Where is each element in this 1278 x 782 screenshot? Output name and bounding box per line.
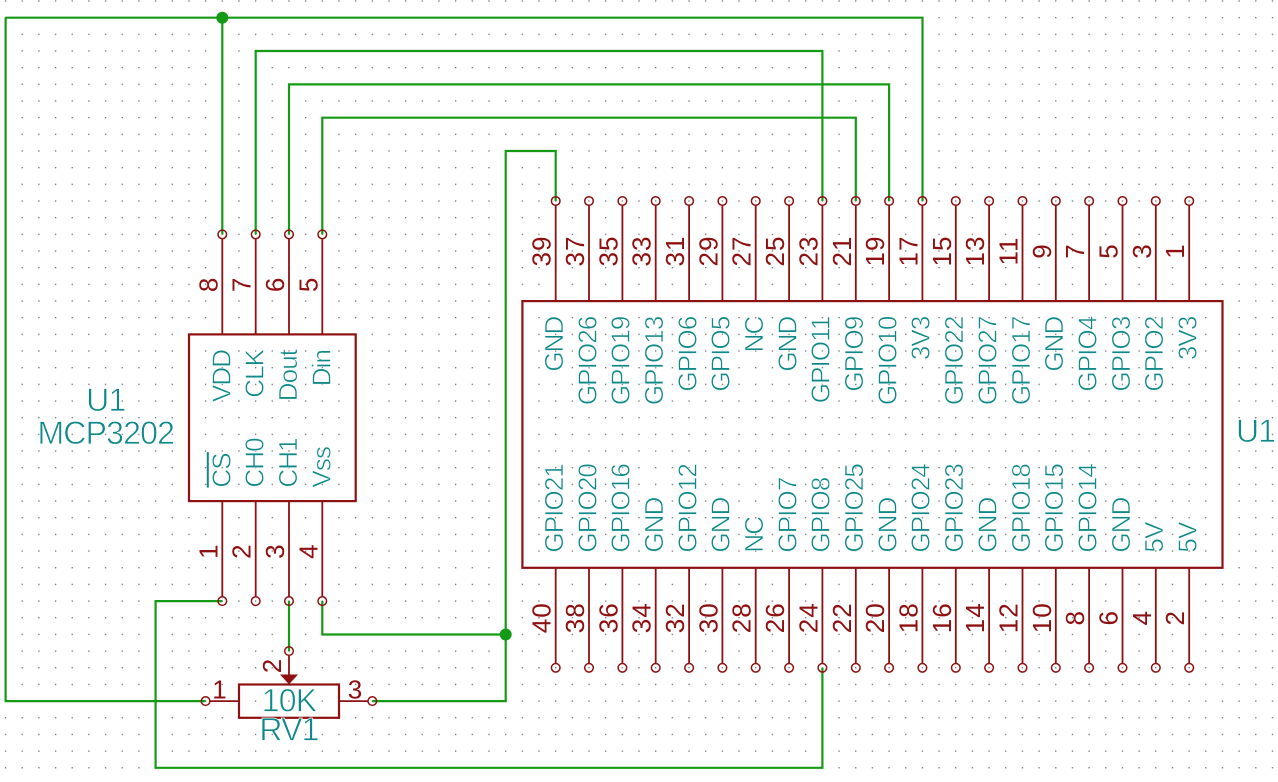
- U1 RasPi pin 6 (GND) bottom: [1094, 497, 1136, 672]
- svg-text:16: 16: [927, 602, 957, 633]
- svg-text:20: 20: [860, 602, 890, 633]
- svg-text:1: 1: [212, 675, 227, 705]
- svg-text:3: 3: [260, 543, 290, 558]
- svg-text:37: 37: [560, 236, 590, 267]
- RV1 pin 2 wiper with arrow: [257, 647, 298, 685]
- U1 RasPi pin 22 (GPIO25) bottom: [827, 464, 869, 672]
- svg-text:GND: GND: [772, 316, 802, 371]
- svg-text:9: 9: [1027, 243, 1057, 258]
- U1 RasPi pin 32 (GPIO12) bottom: [660, 464, 702, 672]
- svg-text:VDD: VDD: [206, 350, 236, 402]
- svg-text:GPIO8: GPIO8: [806, 477, 836, 552]
- svg-text:GPIO21: GPIO21: [539, 464, 569, 553]
- svg-text:GPIO7: GPIO7: [772, 477, 802, 552]
- U1 RasPi pin 11 (GPIO17) top: [994, 197, 1036, 405]
- svg-text:CLK: CLK: [240, 348, 270, 397]
- svg-text:GPIO5: GPIO5: [706, 316, 736, 391]
- svg-text:39: 39: [527, 236, 557, 267]
- U1 RasPi pin 8 (GPIO14) bottom: [1060, 464, 1102, 672]
- svg-text:GND: GND: [972, 497, 1002, 552]
- svg-text:30: 30: [693, 602, 723, 633]
- wire Vss(U1 pin4) to GND vertical: [322, 601, 505, 634]
- svg-text:13: 13: [960, 236, 990, 267]
- U1 RasPi pin 4 (5V) bottom: [1127, 521, 1169, 672]
- U1 RasPi pin 19 (GPIO10) top: [860, 197, 902, 405]
- U1 RasPi pin 29 (GPIO5) top: [693, 197, 735, 392]
- svg-text:14: 14: [960, 602, 990, 633]
- svg-text:GPIO13: GPIO13: [639, 316, 669, 405]
- svg-text:GPIO19: GPIO19: [606, 316, 636, 405]
- svg-text:5: 5: [293, 277, 323, 292]
- svg-text:3V3: 3V3: [906, 316, 936, 360]
- svg-text:17: 17: [893, 236, 923, 267]
- svg-text:4: 4: [293, 543, 323, 558]
- svg-text:GPIO6: GPIO6: [672, 316, 702, 391]
- svg-text:RV1: RV1: [259, 712, 318, 748]
- wire Din(U1 pin5) to RasPi pin21 GPIO9: [322, 118, 856, 235]
- svg-text:GND: GND: [639, 497, 669, 552]
- svg-text:GPIO22: GPIO22: [939, 316, 969, 405]
- U1 RasPi pin 40 (GPIO21) bottom: [527, 464, 569, 672]
- U1 RasPi pin 18 (GPIO24) bottom: [893, 464, 935, 672]
- svg-text:GPIO20: GPIO20: [572, 464, 602, 553]
- svg-text:8: 8: [193, 277, 223, 292]
- U1 MCP3202 pin 5 (Din) top: [293, 230, 336, 386]
- svg-text:GPIO3: GPIO3: [1106, 316, 1136, 391]
- U1 RasPi pin 30 (GND) bottom: [693, 497, 735, 672]
- svg-text:34: 34: [627, 602, 657, 633]
- svg-text:36: 36: [593, 602, 623, 633]
- svg-text:12: 12: [994, 602, 1024, 633]
- svg-text:Dout: Dout: [273, 348, 303, 401]
- U1 MCP3202 pin 8 (VDD) top: [193, 230, 236, 402]
- wire CS(U1 pin1) to RasPi pin24 GPIO8 along bottom: [156, 601, 823, 768]
- svg-text:U1: U1: [1236, 413, 1275, 449]
- svg-text:GND: GND: [539, 316, 569, 371]
- U1 RasPi pin 28 (NC) bottom: [727, 517, 769, 672]
- svg-text:27: 27: [727, 236, 757, 267]
- svg-text:U1: U1: [86, 382, 125, 418]
- potentiometer RV1 body: [239, 685, 339, 718]
- svg-text:18: 18: [893, 602, 923, 633]
- U1 RasPi pin 12 (GPIO18) bottom: [994, 464, 1036, 672]
- U1 MCP3202 pin 4 (Vss) bottom: [293, 446, 336, 605]
- svg-text:1: 1: [193, 543, 223, 558]
- svg-text:GPIO24: GPIO24: [906, 464, 936, 553]
- svg-text:5: 5: [1094, 243, 1124, 258]
- wire stub junction to U1 pin8: [221, 18, 223, 235]
- U1 RasPi pin 37 (GPIO26) top: [560, 197, 602, 405]
- svg-text:NC: NC: [739, 517, 769, 553]
- svg-text:40: 40: [527, 602, 557, 633]
- svg-text:GND: GND: [872, 497, 902, 552]
- svg-text:38: 38: [560, 602, 590, 633]
- U1 RasPi pin 26 (GPIO7) bottom: [760, 477, 802, 672]
- U1 RasPi pin 25 (GND) top: [760, 197, 802, 372]
- U1 RasPi pin 27 (NC) top: [727, 197, 769, 353]
- svg-text:GND: GND: [1106, 497, 1136, 552]
- U1 RasPi pin 38 (GPIO20) bottom: [560, 464, 602, 672]
- svg-text:7: 7: [1060, 243, 1090, 258]
- svg-text:GPIO14: GPIO14: [1072, 464, 1102, 553]
- svg-text:GPIO16: GPIO16: [606, 464, 636, 553]
- svg-text:CS: CS: [206, 453, 236, 488]
- svg-text:2: 2: [257, 658, 287, 673]
- U1 RasPi pin 16 (GPIO23) bottom: [927, 464, 969, 672]
- svg-text:24: 24: [793, 602, 823, 633]
- svg-text:GPIO17: GPIO17: [1006, 316, 1036, 405]
- svg-text:29: 29: [693, 236, 723, 267]
- svg-text:25: 25: [760, 236, 790, 267]
- U1 RasPi pin 7 (GPIO4) top: [1060, 197, 1102, 392]
- U1 RasPi pin 5 (GPIO3) top: [1094, 197, 1136, 392]
- U1 RasPi pin 36 (GPIO16) bottom: [593, 464, 635, 672]
- svg-text:GPIO4: GPIO4: [1072, 316, 1102, 391]
- svg-text:GPIO2: GPIO2: [1139, 316, 1169, 391]
- svg-text:Din: Din: [306, 350, 336, 386]
- svg-text:CH0: CH0: [240, 438, 270, 488]
- svg-text:6: 6: [1094, 610, 1124, 625]
- wire GND net: RasPi pin39 jog to vertical, down to RV1 pin3: [372, 151, 555, 701]
- svg-text:MCP3202: MCP3202: [37, 415, 174, 451]
- U1 RasPi pin 20 (GND) bottom: [860, 497, 902, 672]
- junction dot GND net: [500, 629, 512, 641]
- op-amp/IC U1 MCP3202 body: [189, 334, 356, 501]
- svg-text:26: 26: [760, 602, 790, 633]
- U1 MCP3202 pin 7 (CLK) top: [227, 230, 270, 398]
- svg-text:GPIO10: GPIO10: [872, 316, 902, 405]
- svg-text:GND: GND: [706, 497, 736, 552]
- svg-text:GPIO26: GPIO26: [572, 316, 602, 405]
- svg-text:GPIO25: GPIO25: [839, 464, 869, 553]
- svg-text:3: 3: [348, 675, 363, 705]
- svg-text:CH1: CH1: [273, 438, 303, 488]
- RV1 pin 3: [339, 675, 377, 706]
- U1 RasPi pin 39 (GND) top: [527, 197, 569, 372]
- U1 RasPi pin 31 (GPIO6) top: [660, 197, 702, 392]
- svg-text:2: 2: [227, 543, 257, 558]
- svg-text:1: 1: [1160, 243, 1190, 258]
- svg-text:10: 10: [1027, 602, 1057, 633]
- U1 RasPi pin 2 (5V) bottom: [1160, 521, 1202, 672]
- U1 RasPi pin 9 (GND) top: [1027, 197, 1069, 372]
- svg-text:GPIO12: GPIO12: [672, 464, 702, 553]
- wire CH1(U1 pin3) to RV1 wiper pin2: [288, 601, 290, 651]
- svg-text:GPIO23: GPIO23: [939, 464, 969, 553]
- IC U1 Raspberry Pi GPIO header body: [522, 301, 1222, 568]
- svg-text:33: 33: [627, 236, 657, 267]
- svg-text:GPIO18: GPIO18: [1006, 464, 1036, 553]
- U1 RasPi pin 34 (GND) bottom: [627, 497, 669, 672]
- svg-text:2: 2: [1160, 610, 1190, 625]
- U1 RasPi pin 24 (GPIO8) bottom: [793, 477, 835, 672]
- U1 RasPi pin 35 (GPIO19) top: [593, 197, 635, 405]
- svg-text:7: 7: [227, 277, 257, 292]
- wire Dout(U1 pin6) to RasPi pin19 GPIO10: [289, 84, 889, 234]
- U1 MCP3202 pin 3 (CH1) bottom: [260, 438, 303, 606]
- svg-text:4: 4: [1127, 610, 1157, 625]
- svg-text:5V: 5V: [1173, 521, 1203, 553]
- svg-text:28: 28: [727, 602, 757, 633]
- U1 MCP3202 pin 1 (CS) bottom: [193, 452, 236, 605]
- svg-text:23: 23: [793, 236, 823, 267]
- U1 MCP3202 pin 6 (Dout) top: [260, 230, 303, 401]
- U1 RasPi pin 33 (GPIO13) top: [627, 197, 669, 405]
- U1 RasPi pin 17 (3V3) top: [893, 197, 935, 360]
- svg-text:5V: 5V: [1139, 521, 1169, 553]
- svg-text:6: 6: [260, 277, 290, 292]
- U1 RasPi pin 3 (GPIO2) top: [1127, 197, 1169, 392]
- U1 RasPi pin 23 (GPIO11) top: [793, 197, 835, 404]
- svg-text:8: 8: [1060, 610, 1090, 625]
- wire CLK(U1 pin7) to RasPi pin23 GPIO11: [256, 51, 823, 234]
- svg-text:35: 35: [593, 236, 623, 267]
- U1 RasPi pin 10 (GPIO15) bottom: [1027, 464, 1069, 672]
- junction dot 3V3 rail: [216, 12, 228, 24]
- wire VDD(U1 pin8) / 3V3 net: top rail to RasPi pin17 and down left edge to RV1 pin1: [6, 18, 923, 701]
- svg-text:31: 31: [660, 236, 690, 267]
- svg-text:3V3: 3V3: [1173, 316, 1203, 360]
- CS overline: [207, 452, 209, 488]
- svg-text:22: 22: [827, 602, 857, 633]
- svg-text:19: 19: [860, 236, 890, 267]
- svg-text:GND: GND: [1039, 316, 1069, 371]
- svg-text:NC: NC: [739, 316, 769, 352]
- U1 RasPi pin 15 (GPIO22) top: [927, 197, 969, 405]
- svg-text:Vss: Vss: [306, 446, 336, 488]
- U1 RasPi pin 14 (GND) bottom: [960, 497, 1002, 672]
- U1 RasPi pin 13 (GPIO27) top: [960, 197, 1002, 405]
- svg-text:GPIO15: GPIO15: [1039, 464, 1069, 553]
- svg-text:GPIO9: GPIO9: [839, 316, 869, 391]
- U1 RasPi pin 21 (GPIO9) top: [827, 197, 869, 392]
- svg-text:GPIO11: GPIO11: [806, 316, 836, 403]
- svg-text:32: 32: [660, 602, 690, 633]
- svg-text:GPIO27: GPIO27: [972, 316, 1002, 405]
- svg-text:15: 15: [927, 236, 957, 267]
- svg-text:3: 3: [1127, 243, 1157, 258]
- RV1 pin 1: [201, 675, 239, 706]
- U1 MCP3202 pin 2 (CH0) bottom: [227, 438, 270, 606]
- U1 RasPi pin 1 (3V3) top: [1160, 197, 1202, 360]
- svg-text:21: 21: [827, 236, 857, 267]
- svg-text:11: 11: [994, 237, 1024, 266]
